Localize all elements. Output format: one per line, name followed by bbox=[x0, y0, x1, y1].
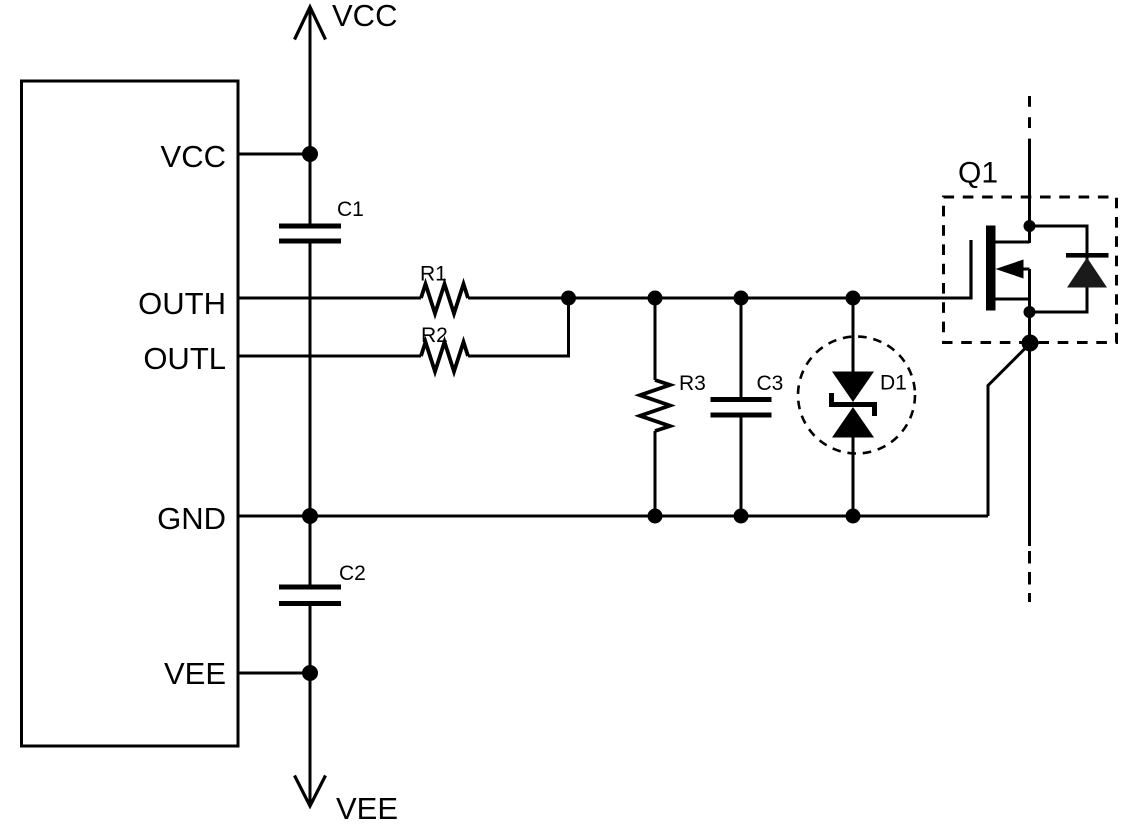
junction dot MOSFET source bbox=[1024, 306, 1036, 318]
VCC arrow bbox=[295, 7, 326, 40]
capacitor C1 bbox=[279, 226, 341, 241]
junction dot R3 top bbox=[648, 291, 663, 306]
D1 lower triangle bbox=[832, 407, 874, 438]
svg-text:R1: R1 bbox=[420, 263, 447, 286]
body arrow tail wire bbox=[1023, 268, 1030, 271]
VCC pin wire bbox=[238, 153, 310, 156]
svg-text:GND: GND bbox=[157, 501, 226, 536]
svg-text:VEE: VEE bbox=[336, 791, 398, 826]
TVS diode D1 wires bbox=[852, 298, 855, 372]
VEE arrow bbox=[295, 776, 326, 807]
resistor R3 bbox=[654, 298, 657, 380]
wire GND up to MOSFET source node bbox=[988, 344, 1030, 517]
wire C1 bottom to C2 top bbox=[309, 243, 312, 585]
Q1 dashed outline bbox=[944, 197, 1117, 343]
svg-text:VCC: VCC bbox=[332, 0, 397, 33]
body diode triangle bbox=[1067, 258, 1107, 288]
svg-text:R3: R3 bbox=[679, 372, 706, 395]
MOSFET body arrow bbox=[996, 260, 1024, 279]
junction dot D1 bottom bbox=[846, 509, 861, 524]
junction dot VCC pin bbox=[302, 146, 318, 162]
wire R2 to node bbox=[468, 298, 569, 356]
junction dot C3 bottom bbox=[734, 509, 749, 524]
svg-text:R2: R2 bbox=[421, 324, 448, 347]
D1 dashed circle bbox=[798, 337, 915, 454]
VCC rail wire (top arrow shaft to C1 top plate) bbox=[309, 9, 312, 224]
junction dot MOSFET drain bbox=[1024, 220, 1036, 232]
OUTH net wire to MOSFET gate bbox=[468, 297, 971, 300]
drain wire bbox=[1028, 147, 1031, 243]
MOSFET channel bar bbox=[986, 226, 996, 311]
resistor R1 bbox=[421, 284, 468, 314]
svg-text:OUTL: OUTL bbox=[143, 341, 226, 376]
source vertical wire bbox=[1028, 269, 1031, 546]
svg-text:Q1: Q1 bbox=[958, 157, 998, 190]
junction dot D1 top bbox=[846, 291, 861, 306]
junction dot GND pin bbox=[302, 508, 318, 524]
svg-text:D1: D1 bbox=[880, 372, 907, 395]
body diode bottom wire bbox=[1030, 257, 1088, 312]
junction dot VEE pin bbox=[302, 665, 318, 681]
capacitor C2 bbox=[279, 587, 341, 604]
dashed drain stub (top) bbox=[1028, 96, 1031, 148]
OUTH pin wire bbox=[238, 297, 421, 300]
junction dot C3 top bbox=[734, 291, 749, 306]
VEE pin wire bbox=[238, 672, 310, 675]
resistor R2 bbox=[421, 342, 468, 372]
IC body (gate driver) bbox=[22, 81, 239, 746]
D1 upper triangle bbox=[832, 372, 874, 403]
svg-text:OUTH: OUTH bbox=[138, 286, 226, 321]
dashed source stub (bottom) bbox=[1028, 551, 1031, 602]
junction dot OUTH/R2 node bbox=[561, 291, 576, 306]
svg-text:C3: C3 bbox=[757, 372, 784, 395]
junction dot output node bbox=[1022, 335, 1039, 352]
OUTL pin wire bbox=[238, 355, 421, 358]
D1 zener bar bbox=[829, 402, 877, 407]
drain horizontal into channel bbox=[995, 241, 1030, 244]
capacitor C3 bbox=[740, 298, 743, 397]
svg-text:C1: C1 bbox=[337, 198, 364, 221]
svg-text:C2: C2 bbox=[339, 562, 366, 585]
MOSFET gate electrode bbox=[969, 240, 972, 300]
source horizontal from channel bbox=[995, 298, 1030, 301]
body diode top wire bbox=[1030, 226, 1088, 255]
svg-text:VEE: VEE bbox=[164, 656, 226, 691]
junction dot R3 bottom bbox=[648, 509, 663, 524]
body diode cathode bar bbox=[1066, 253, 1109, 258]
GND pin wire bbox=[238, 515, 988, 518]
wire C2 bottom to VEE arrow bbox=[309, 606, 312, 803]
svg-text:VCC: VCC bbox=[161, 139, 226, 174]
